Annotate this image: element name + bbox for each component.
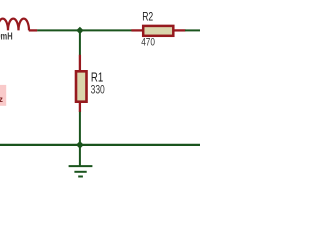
resistor R1 lead top xyxy=(79,55,81,71)
generator label box (cut off at edge) xyxy=(0,85,6,106)
resistor R1 lead bottom xyxy=(79,103,81,113)
node junction bottom xyxy=(76,141,84,149)
ground symbol xyxy=(69,166,93,176)
wire vertical: junction to R1 xyxy=(79,30,81,55)
svg-text:0mH: 0mH xyxy=(0,31,13,43)
resistor R2 body xyxy=(143,26,173,36)
wire top right: R2 to edge xyxy=(185,29,200,31)
wire bottom rail xyxy=(0,144,200,146)
node junction top xyxy=(76,27,83,34)
wire top: inductor to R2 xyxy=(37,29,131,31)
svg-text:1kHz: 1kHz xyxy=(0,95,3,104)
svg-text:R2: R2 xyxy=(142,9,153,23)
svg-text:470: 470 xyxy=(141,36,155,48)
resistor R1 body xyxy=(76,71,87,101)
resistor R2 lead left xyxy=(131,29,143,31)
inductor L1 xyxy=(0,19,37,31)
ground stub wire xyxy=(79,145,81,166)
resistor R2 lead right xyxy=(174,29,185,31)
svg-text:330: 330 xyxy=(91,83,105,97)
wire vertical: R1 to bottom rail xyxy=(79,112,81,145)
